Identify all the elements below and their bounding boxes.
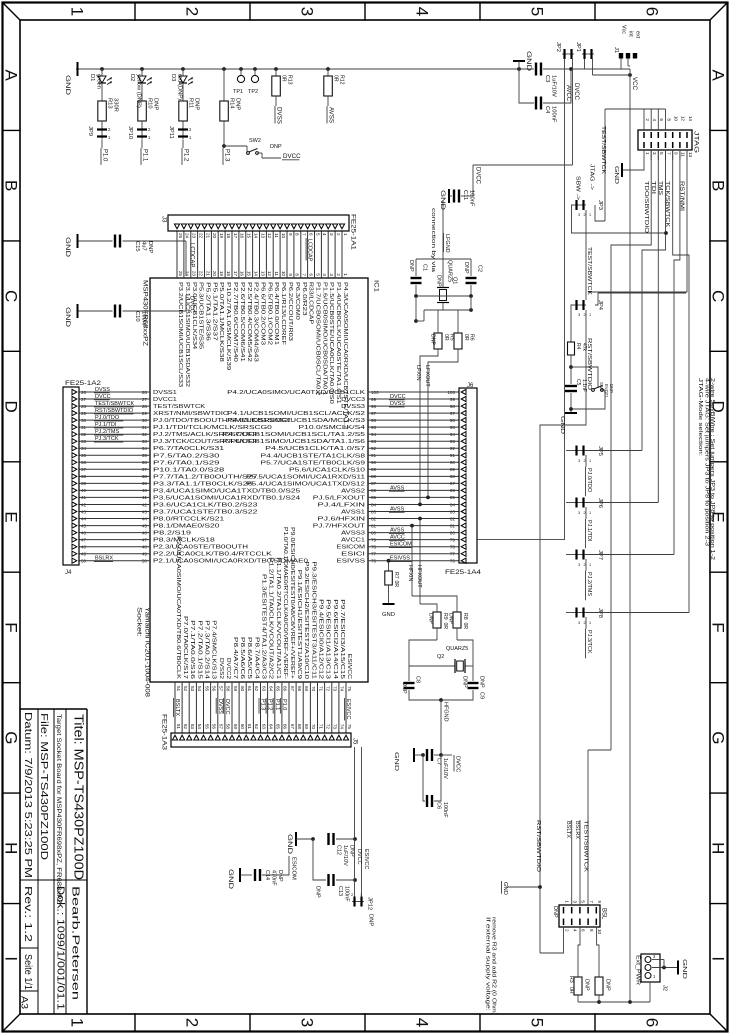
svg-text:DVCC: DVCC xyxy=(455,756,461,772)
svg-text:P4.5/UCB1CLK/TA1.0/S7: P4.5/UCB1CLK/TA1.0/S7 xyxy=(265,446,365,452)
svg-text:3: 3 xyxy=(329,273,334,276)
svg-text:100nF: 100nF xyxy=(442,802,448,818)
svg-text:63: 63 xyxy=(261,686,266,692)
svg-text:AVCC: AVCC xyxy=(565,85,571,102)
svg-text:100nF: 100nF xyxy=(344,886,350,902)
svg-text:PJ.2/TMS: PJ.2/TMS xyxy=(586,572,592,596)
svg-text:GND: GND xyxy=(525,51,531,72)
svg-text:FE25-1A3: FE25-1A3 xyxy=(161,714,168,751)
svg-text:24: 24 xyxy=(185,233,190,239)
svg-text:4: 4 xyxy=(322,233,327,236)
svg-text:AVSS2: AVSS2 xyxy=(341,488,365,494)
svg-text:C1: C1 xyxy=(422,264,428,271)
svg-text:TEST/SBWTCK: TEST/SBWTCK xyxy=(600,126,606,174)
svg-text:RST/SBWTDIO: RST/SBWTDIO xyxy=(535,820,541,873)
svg-text:DVCC: DVCC xyxy=(224,699,230,715)
svg-text:52: 52 xyxy=(183,686,188,692)
svg-text:DNP: DNP xyxy=(552,906,558,918)
svg-text:GND: GND xyxy=(64,237,70,258)
svg-text:14: 14 xyxy=(688,116,693,122)
svg-text:GND: GND xyxy=(64,307,70,328)
svg-text:P1.4/UCB0CLK/UCA0STE/TA1.0/S1: P1.4/UCB0CLK/UCA0STE/TA1.0/S1 xyxy=(335,282,341,404)
svg-text:16: 16 xyxy=(240,233,245,239)
svg-text:1: 1 xyxy=(343,233,348,236)
svg-text:73: 73 xyxy=(333,724,338,730)
svg-text:3: 3 xyxy=(578,621,580,625)
svg-text:53: 53 xyxy=(190,686,195,692)
svg-text:21: 21 xyxy=(205,233,210,239)
svg-text:GND: GND xyxy=(64,75,70,96)
svg-text:DVCC: DVCC xyxy=(189,296,195,314)
svg-text:12: 12 xyxy=(267,233,272,239)
svg-text:P5.3/UCB1STE/S35: P5.3/UCB1STE/S35 xyxy=(198,282,204,349)
svg-text:Q2: Q2 xyxy=(437,654,444,660)
svg-text:1: 1 xyxy=(564,900,569,903)
svg-text:P7.5/TA0.2/S30: P7.5/TA0.2/S30 xyxy=(153,453,220,459)
svg-text:P6.3/COM0: P6.3/COM0 xyxy=(294,282,300,320)
svg-text:yellow (DNP): yellow (DNP) xyxy=(136,74,142,108)
svg-text:C: C xyxy=(708,290,727,302)
svg-text:P7.1/TA0.0/S16: P7.1/TA0.0/S16 xyxy=(189,620,195,679)
svg-text:1: 1 xyxy=(589,621,591,625)
svg-text:TEST/SBWTCK: TEST/SBWTCK xyxy=(153,404,206,410)
svg-text:AVSS: AVSS xyxy=(390,507,405,513)
svg-text:J6: J6 xyxy=(467,383,474,389)
svg-text:0R: 0R xyxy=(393,581,399,588)
svg-text:P7.2/TA0.1/S15: P7.2/TA0.1/S15 xyxy=(196,620,202,679)
svg-text:Datum: 7/9/2013 5:23:25 PM: Datum: 7/9/2013 5:23:25 PM xyxy=(22,712,34,878)
svg-text:1uF/10V: 1uF/10V xyxy=(551,75,557,97)
svg-text:DNP: DNP xyxy=(194,98,200,110)
svg-text:2: 2 xyxy=(584,621,586,625)
svg-text:PJ.1/TDI: PJ.1/TDI xyxy=(95,422,117,428)
svg-text:JP8: JP8 xyxy=(597,608,603,618)
svg-text:3: 3 xyxy=(578,313,580,317)
svg-text:0R: 0R xyxy=(568,987,574,994)
svg-text:P10.0/SMCLK/S4: P10.0/SMCLK/S4 xyxy=(299,425,366,431)
svg-text:P3.5/UCA1SOMI/UCA1RXD/TB0.1/S2: P3.5/UCA1SOMI/UCA1RXD/TB0.1/S24 xyxy=(153,495,300,501)
svg-text:1: 1 xyxy=(67,1018,86,1027)
svg-text:1uF/10V: 1uF/10V xyxy=(442,758,448,779)
svg-text:3: 3 xyxy=(578,511,580,515)
svg-text:DNP: DNP xyxy=(430,334,436,345)
svg-text:19: 19 xyxy=(219,271,224,277)
svg-text:TDI: TDI xyxy=(650,181,656,195)
svg-text:6: 6 xyxy=(642,1018,661,1027)
svg-text:13: 13 xyxy=(260,271,265,277)
svg-text:60: 60 xyxy=(240,724,245,730)
svg-text:6: 6 xyxy=(308,273,313,276)
svg-text:16: 16 xyxy=(240,271,245,277)
svg-text:remove R3 and add R2 (0 Ohm): remove R3 and add R2 (0 Ohm) xyxy=(491,917,497,1015)
svg-text:GND: GND xyxy=(439,190,445,211)
svg-text:12: 12 xyxy=(267,271,272,277)
svg-text:TEST/SBWTCK: TEST/SBWTCK xyxy=(95,401,134,407)
svg-text:DNP: DNP xyxy=(584,979,590,991)
svg-text:P9.7/ESICI3/A15/C15: P9.7/ESICI3/A15/C15 xyxy=(339,599,345,679)
svg-text:QUARZ5: QUARZ5 xyxy=(446,646,468,652)
svg-text:8: 8 xyxy=(589,929,594,932)
svg-text:Vcc: Vcc xyxy=(621,25,627,34)
svg-text:P8.0/RTCCLK/S21: P8.0/RTCCLK/S21 xyxy=(153,517,224,523)
svg-text:red (DNP): red (DNP) xyxy=(177,74,183,100)
svg-text:0R: 0R xyxy=(463,334,469,341)
svg-text:9: 9 xyxy=(597,900,602,903)
svg-text:P6.5/TB0.1/COM2: P6.5/TB0.1/COM2 xyxy=(266,282,272,345)
svg-text:JP11: JP11 xyxy=(168,126,174,139)
svg-text:Dok.: 1099/1/001/01.1: Dok.: 1099/1/001/01.1 xyxy=(55,886,66,1011)
svg-text:ext: ext xyxy=(635,31,641,39)
svg-text:PJ.3/TCK: PJ.3/TCK xyxy=(586,630,592,654)
svg-text:F: F xyxy=(708,622,727,632)
svg-text:JTAG-Mode selection:: JTAG-Mode selection: xyxy=(697,378,703,457)
svg-text:330R: 330R xyxy=(113,98,119,112)
svg-text:P5.2/TA1.3/S36: P5.2/TA1.3/S36 xyxy=(205,282,211,341)
svg-text:67: 67 xyxy=(290,724,295,730)
svg-text:C8: C8 xyxy=(415,676,421,683)
svg-text:P1.3: P1.3 xyxy=(260,699,266,710)
svg-text:P5.6/UCA1CLK/S10: P5.6/UCA1CLK/S10 xyxy=(289,467,365,473)
svg-text:B: B xyxy=(708,180,727,191)
svg-text:72: 72 xyxy=(325,724,330,730)
svg-text:75: 75 xyxy=(347,686,352,692)
svg-text:100nF: 100nF xyxy=(469,190,475,207)
svg-text:C2: C2 xyxy=(477,265,483,272)
svg-text:P1.1: P1.1 xyxy=(142,149,148,162)
svg-text:D1: D1 xyxy=(89,74,95,81)
svg-text:JP6: JP6 xyxy=(597,498,603,508)
svg-text:9: 9 xyxy=(288,273,293,276)
svg-text:1: 1 xyxy=(589,459,591,463)
svg-text:P9.5/ESICI1/A13/C13: P9.5/ESICI1/A13/C13 xyxy=(325,599,331,679)
svg-text:ESICOM: ESICOM xyxy=(390,542,412,548)
svg-text:Bearb.Petersen: Bearb.Petersen xyxy=(70,886,82,1000)
svg-text:R33/LCDCAP: R33/LCDCAP xyxy=(308,282,314,324)
svg-text:3: 3 xyxy=(297,1018,316,1027)
svg-text:PJ.7/HFXOUT: PJ.7/HFXOUT xyxy=(313,524,366,530)
svg-text:54: 54 xyxy=(197,686,202,692)
svg-text:J2: J2 xyxy=(662,985,668,991)
svg-text:B: B xyxy=(1,180,20,191)
svg-text:DNP: DNP xyxy=(408,260,414,272)
svg-text:P8.1/DMAE0/S20: P8.1/DMAE0/S20 xyxy=(153,524,220,530)
svg-text:TDO/SBWTDIO: TDO/SBWTDIO xyxy=(643,181,649,234)
svg-text:PJ.3/TCK: PJ.3/TCK xyxy=(95,436,119,442)
svg-text:R9: R9 xyxy=(442,613,448,620)
svg-text:62: 62 xyxy=(254,724,259,730)
svg-text:JP2: JP2 xyxy=(555,42,561,52)
svg-text:1: 1 xyxy=(589,213,591,217)
svg-text:I: I xyxy=(1,956,20,961)
svg-text:P5.5/UCA1SOMI/UCA1RXD/S11: P5.5/UCA1SOMI/UCA1RXD/S11 xyxy=(246,474,365,480)
svg-text:10: 10 xyxy=(281,271,286,277)
svg-text:100nF: 100nF xyxy=(551,106,557,123)
svg-text:PJ.5/LFXOUT: PJ.5/LFXOUT xyxy=(313,495,366,501)
svg-text:P1.5/UCB0STE/UCA0CLK/TA0.0/S0: P1.5/UCB0STE/UCA0CLK/TA0.0/S0 xyxy=(328,282,334,404)
svg-text:2: 2 xyxy=(584,459,586,463)
svg-text:D: D xyxy=(1,400,20,412)
svg-text:2: 2 xyxy=(584,563,586,567)
svg-text:DNP: DNP xyxy=(277,870,283,882)
svg-text:GND: GND xyxy=(502,882,508,895)
svg-text:4: 4 xyxy=(322,273,327,276)
svg-text:DNP: DNP xyxy=(349,845,355,857)
svg-text:25: 25 xyxy=(178,271,183,277)
svg-text:2: 2 xyxy=(564,929,569,932)
svg-text:0R: 0R xyxy=(281,75,287,82)
svg-text:R13: R13 xyxy=(287,75,293,85)
svg-text:7: 7 xyxy=(302,233,307,236)
svg-text:SBW ->: SBW -> xyxy=(575,176,581,200)
svg-text:15: 15 xyxy=(247,271,252,277)
svg-text:20: 20 xyxy=(212,233,217,239)
svg-text:59: 59 xyxy=(233,724,238,730)
svg-text:LCDCAP: LCDCAP xyxy=(189,243,195,267)
svg-text:2: 2 xyxy=(584,511,586,515)
svg-text:JP1: JP1 xyxy=(575,42,581,52)
svg-text:22: 22 xyxy=(198,271,203,277)
svg-text:A: A xyxy=(708,70,727,82)
svg-text:Rev.: 1.2: Rev.: 1.2 xyxy=(22,886,34,942)
svg-text:Socket:: Socket: xyxy=(136,607,143,637)
svg-text:G: G xyxy=(1,731,20,744)
svg-text:ESICOM: ESICOM xyxy=(337,545,366,551)
svg-text:H: H xyxy=(1,842,20,854)
svg-text:3: 3 xyxy=(652,152,657,155)
svg-text:11: 11 xyxy=(681,152,686,157)
svg-text:D2: D2 xyxy=(129,74,135,81)
svg-text:P1.3/ESITEST4/TA1.2/A3/C3: P1.3/ESITEST4/TA1.2/A3/C3 xyxy=(261,574,267,679)
svg-text:5: 5 xyxy=(659,152,664,155)
svg-text:P1.2: P1.2 xyxy=(267,699,273,710)
svg-text:E: E xyxy=(1,511,20,522)
svg-text:GND: GND xyxy=(393,752,399,771)
svg-text:Yamaichi IC201-1004-008: Yamaichi IC201-1004-008 xyxy=(144,607,151,698)
svg-text:JP10: JP10 xyxy=(127,126,133,139)
svg-text:AVSS: AVSS xyxy=(328,107,335,123)
svg-text:R13: R13 xyxy=(107,98,113,109)
svg-text:51: 51 xyxy=(176,724,181,730)
svg-text:DVSS1: DVSS1 xyxy=(153,390,177,396)
svg-text:DNP: DNP xyxy=(235,98,241,110)
svg-text:P2.3/UCA0STE/TB0OUTH: P2.3/UCA0STE/TB0OUTH xyxy=(153,545,248,551)
svg-text:18: 18 xyxy=(226,271,231,277)
svg-text:BSLTX: BSLTX xyxy=(565,821,571,838)
svg-text:13: 13 xyxy=(688,152,693,158)
svg-text:PJ.0/TDO: PJ.0/TDO xyxy=(586,468,592,493)
svg-text:R5: R5 xyxy=(449,334,455,341)
svg-text:55: 55 xyxy=(204,724,209,730)
svg-text:0R: 0R xyxy=(462,623,468,630)
svg-text:P9.3/ESICH3/ESITEST3/A11/C11: P9.3/ESICH3/ESITEST3/A11/C11 xyxy=(310,561,316,679)
svg-text:FE25-1A4: FE25-1A4 xyxy=(445,569,482,576)
svg-text:PJ.6/HFXIN: PJ.6/HFXIN xyxy=(318,517,366,523)
svg-text:100nF: 100nF xyxy=(141,311,147,328)
svg-text:G: G xyxy=(708,731,727,744)
svg-text:BSLRX: BSLRX xyxy=(95,556,113,562)
svg-text:P1.0/TA0.1/DMAE0/RTCCLK/A0/C0/: P1.0/TA0.1/DMAE0/RTCCLK/A0/C0/VREF-/VERE… xyxy=(282,527,288,679)
svg-text:PJ.2/TMS: PJ.2/TMS xyxy=(95,429,119,435)
svg-text:HFXOUT: HFXOUT xyxy=(416,565,422,588)
svg-text:DVCC: DVCC xyxy=(573,83,579,101)
svg-text:10: 10 xyxy=(674,116,679,122)
svg-text:DNP: DNP xyxy=(401,682,407,694)
svg-text:4: 4 xyxy=(412,7,431,16)
svg-text:56: 56 xyxy=(211,686,216,692)
svg-text:P4.6/UCB1SIMO/UCB1SDA/TA1.1/S6: P4.6/UCB1SIMO/UCB1SDA/TA1.1/S6 xyxy=(223,439,366,445)
svg-text:0R: 0R xyxy=(333,75,339,82)
svg-text:TP1: TP1 xyxy=(233,89,243,95)
svg-text:C9: C9 xyxy=(479,692,485,699)
svg-text:58: 58 xyxy=(226,724,231,730)
svg-text:int: int xyxy=(628,31,634,37)
svg-text:D3: D3 xyxy=(170,74,176,81)
svg-text:Q1: Q1 xyxy=(452,277,458,284)
svg-text:2: 2 xyxy=(584,213,586,217)
svg-text:JP7: JP7 xyxy=(597,550,603,560)
svg-text:19: 19 xyxy=(219,233,224,239)
svg-text:R3: R3 xyxy=(568,976,574,983)
svg-text:PJ.1/TDI: PJ.1/TDI xyxy=(586,520,592,542)
svg-text:I: I xyxy=(708,956,727,961)
svg-text:10: 10 xyxy=(597,929,602,935)
svg-text:71: 71 xyxy=(318,724,323,730)
svg-text:GND: GND xyxy=(286,834,292,855)
svg-text:P5.1/TA1.2/S37: P5.1/TA1.2/S37 xyxy=(211,282,217,341)
svg-text:AVCC1: AVCC1 xyxy=(341,538,365,544)
svg-text:8: 8 xyxy=(666,118,671,121)
svg-text:HFXIN: HFXIN xyxy=(407,565,413,582)
svg-text:4: 4 xyxy=(573,929,578,932)
svg-text:C15: C15 xyxy=(134,241,140,252)
svg-text:65: 65 xyxy=(276,724,281,730)
svg-text:5: 5 xyxy=(581,900,586,903)
svg-text:AVCC: AVCC xyxy=(390,535,405,541)
svg-text:1uF/10V: 1uF/10V xyxy=(342,845,348,866)
svg-text:56: 56 xyxy=(211,724,216,730)
svg-text:15: 15 xyxy=(247,233,252,239)
svg-text:P1.7/UCB0SOMI/UCB0SCL/TA0.2: P1.7/UCB0SOMI/UCB0SCL/TA0.2 xyxy=(315,282,321,395)
svg-text:P7.4/SMCLK/S13: P7.4/SMCLK/S13 xyxy=(211,620,217,679)
svg-text:7: 7 xyxy=(589,900,594,903)
svg-text:P3.3/TA1.1/TB0CLK/S26: P3.3/TA1.1/TB0CLK/S26 xyxy=(153,481,253,487)
svg-text:JTAG: JTAG xyxy=(693,131,700,153)
svg-text:1: 1 xyxy=(645,152,650,155)
svg-text:2-wire SpyBiWire : Set jumpers: 2-wire SpyBiWire : Set jumpers JP3 to JP… xyxy=(709,378,715,560)
svg-text:P8.2/S19: P8.2/S19 xyxy=(153,531,191,537)
svg-text:4: 4 xyxy=(412,1018,431,1027)
svg-text:11: 11 xyxy=(274,233,279,238)
svg-text:8: 8 xyxy=(295,233,300,236)
svg-text:65: 65 xyxy=(276,686,281,692)
svg-text:P6.0/R23: P6.0/R23 xyxy=(301,282,307,316)
svg-text:DVCC2: DVCC2 xyxy=(225,658,231,679)
svg-text:10: 10 xyxy=(281,233,286,239)
svg-text:LFXIN: LFXIN xyxy=(415,365,421,381)
svg-text:P1.0: P1.0 xyxy=(102,149,108,162)
svg-text:69: 69 xyxy=(304,686,309,692)
svg-text:P1.3: P1.3 xyxy=(224,149,230,162)
svg-text:P2.5/TB0.4/COM5/S42: P2.5/TB0.4/COM5/S42 xyxy=(246,282,252,362)
svg-text:DNP: DNP xyxy=(609,384,614,393)
svg-text:P6.2/CCOUT/R03: P6.2/CCOUT/R03 xyxy=(287,282,293,341)
svg-text:DVSS: DVSS xyxy=(217,699,223,714)
svg-text:60: 60 xyxy=(240,686,245,692)
svg-text:9: 9 xyxy=(288,233,293,236)
svg-text:P10.2/TA1.0/SMCLK/S39: P10.2/TA1.0/SMCLK/S39 xyxy=(225,282,231,370)
svg-text:58: 58 xyxy=(226,686,231,692)
svg-text:GND: GND xyxy=(681,959,687,979)
svg-text:PJ.0/TDO: PJ.0/TDO xyxy=(95,415,120,421)
svg-text:P4.3/UCA0SOMI/UCA0RXD/UCB1STE/: P4.3/UCA0SOMI/UCA0RXD/UCB1STE/TA1.2 xyxy=(342,282,348,429)
svg-text:R11: R11 xyxy=(188,98,194,108)
svg-text:A3: A3 xyxy=(20,996,30,1009)
svg-text:P9.0/ESICH0/ESITEST0/A8/C8/VRE: P9.0/ESICH0/ESITEST0/A8/C8/VREF+/VEREF+ xyxy=(289,527,295,679)
svg-text:DNP: DNP xyxy=(147,241,153,253)
svg-text:1: 1 xyxy=(589,313,591,317)
svg-text:67: 67 xyxy=(290,686,295,692)
svg-text:5: 5 xyxy=(315,273,320,276)
svg-text:P1.0: P1.0 xyxy=(281,699,287,710)
svg-text:P2.7/TB0.6/COM7/S40: P2.7/TB0.6/COM7/S40 xyxy=(232,282,238,362)
svg-text:connection by via: connection by via xyxy=(430,208,436,273)
svg-text:Ext_PWR: Ext_PWR xyxy=(635,955,641,985)
svg-text:DNP: DNP xyxy=(428,613,434,624)
svg-text:P3.7/UCA1STE/TB0.3/S22: P3.7/UCA1STE/TB0.3/S22 xyxy=(153,510,258,516)
svg-text:DNP: DNP xyxy=(479,676,485,688)
svg-text:JP9: JP9 xyxy=(87,126,93,136)
svg-text:DVCC: DVCC xyxy=(95,394,111,400)
svg-text:57: 57 xyxy=(219,686,224,692)
svg-text:ESIVCC: ESIVCC xyxy=(345,699,351,720)
svg-text:DNP: DNP xyxy=(448,613,454,624)
svg-text:DNP: DNP xyxy=(436,275,442,287)
svg-text:5: 5 xyxy=(527,7,546,16)
svg-text:68: 68 xyxy=(297,724,302,730)
svg-text:P6.7/TA0CLK/S31: P6.7/TA0CLK/S31 xyxy=(153,446,224,452)
svg-text:P7.3/TA0.2/S14: P7.3/TA0.2/S14 xyxy=(204,620,210,679)
svg-text:53: 53 xyxy=(190,724,195,730)
svg-text:1: 1 xyxy=(589,511,591,515)
svg-text:DVSS: DVSS xyxy=(390,401,405,407)
svg-text:75: 75 xyxy=(347,724,352,730)
svg-text:TP2: TP2 xyxy=(248,89,258,95)
svg-text:P5.4/UCA1SIMO/UCA1TXD/S12: P5.4/UCA1SIMO/UCA1TXD/S12 xyxy=(246,481,365,487)
svg-text:AVSS: AVSS xyxy=(390,485,405,491)
svg-text:GND: GND xyxy=(227,869,233,890)
svg-text:RST/SBWTDIO: RST/SBWTDIO xyxy=(95,408,134,414)
svg-text:P3.2/UCB1SOMI/UCB1SCL/S33: P3.2/UCB1SOMI/UCB1SCL/S33 xyxy=(177,282,183,387)
svg-text:22: 22 xyxy=(198,233,203,239)
svg-text:C13: C13 xyxy=(337,886,343,896)
svg-text:20: 20 xyxy=(212,271,217,277)
svg-text:P8.7/A4/C4: P8.7/A4/C4 xyxy=(253,637,259,679)
svg-text:3: 3 xyxy=(578,459,580,463)
svg-text:2: 2 xyxy=(645,118,650,121)
svg-text:P8.6/A5/C5: P8.6/A5/C5 xyxy=(246,637,252,679)
svg-text:3: 3 xyxy=(578,563,580,567)
svg-text:PJ.1/TDI/TCLK/MCLK/SRSCG0: PJ.1/TDI/TCLK/MCLK/SRSCG0 xyxy=(153,425,272,431)
svg-text:TCK/SBWTCK: TCK/SBWTCK xyxy=(664,181,670,227)
svg-text:4: 4 xyxy=(652,118,657,121)
svg-text:R7: R7 xyxy=(393,572,399,579)
svg-text:71: 71 xyxy=(318,686,323,692)
svg-text:DNP: DNP xyxy=(462,676,468,688)
svg-text:P4.4/UCB1STE/TA1CLK/S8: P4.4/UCB1STE/TA1CLK/S8 xyxy=(261,453,366,459)
svg-text:R12: R12 xyxy=(339,75,345,85)
svg-text:1.1nF: 1.1nF xyxy=(581,379,587,392)
svg-text:AVSS: AVSS xyxy=(390,528,405,534)
